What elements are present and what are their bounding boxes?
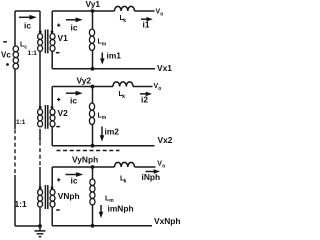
wire left branch bottom solid [14, 175, 16, 226]
wire Vx1 rail [52, 68, 155, 70]
svg-text:Vc: Vc [1, 51, 11, 60]
svg-text:k: k [124, 178, 127, 184]
wire primary chain T1 to T2 [39, 51, 41, 109]
svg-text:VNph: VNph [58, 191, 80, 201]
label Vc [1, 51, 11, 60]
label Lc [20, 42, 27, 51]
svg-text:iNph: iNph [142, 172, 161, 182]
svg-text:imNph: imNph [108, 203, 134, 213]
svg-text:im2: im2 [105, 126, 120, 136]
wire Vy1 to Lk1 [93, 10, 115, 12]
wire T2 secondary down [51, 127, 53, 146]
label i1 [143, 20, 150, 30]
wire Vx2 rail [52, 145, 154, 147]
svg-text:V1: V1 [58, 33, 69, 43]
svg-text:o: o [162, 163, 165, 169]
svg-text:Vy2: Vy2 [77, 76, 92, 86]
label ic primary [24, 21, 31, 31]
wire TN primary down [39, 207, 41, 226]
current arrow i1 [141, 17, 153, 22]
wire TN secondary up [51, 167, 53, 189]
transformer TN core [45, 185, 47, 209]
label plus Vc [6, 63, 9, 66]
wire primary chain to TN solid [39, 167, 41, 189]
transformer T2 secondary winding [50, 109, 55, 127]
label ic phase2 [70, 95, 77, 105]
wire phaseN secondary top [52, 166, 92, 168]
transformer T2 secondary dot [51, 106, 54, 109]
current arrow im1 [100, 53, 105, 65]
label im2 [105, 126, 120, 136]
label 1:1 T2 [16, 119, 26, 126]
wire primary chain dashed [39, 142, 41, 168]
svg-text:1:1: 1:1 [28, 50, 38, 57]
svg-text:Vx2: Vx2 [158, 135, 173, 145]
current arrow imNph [99, 205, 104, 218]
current arrow ic phaseN [66, 172, 84, 177]
transformer T1 secondary dot [51, 30, 54, 33]
label node Vx1 [157, 63, 172, 73]
label LkN [120, 176, 127, 185]
wire primary loop top [15, 10, 40, 12]
label minus Vc [3, 41, 7, 43]
wire VyNph to LkN [93, 166, 115, 168]
wire primary chain T2 lower solid [39, 129, 41, 141]
svg-text:Vx1: Vx1 [157, 63, 172, 73]
svg-text:i1: i1 [143, 20, 150, 30]
svg-text:1:1: 1:1 [16, 119, 26, 126]
wire Lk2 to Vo [133, 86, 153, 88]
wire Lm2 to Vx2 [92, 125, 94, 146]
label Vo phase1 [156, 9, 164, 18]
transformer T2 core [45, 105, 47, 129]
wire T1 secondary up [51, 11, 53, 34]
label VNph [58, 191, 80, 201]
node primary bottom junction [38, 224, 42, 228]
inductor Lc [13, 46, 18, 69]
label Lm1 [98, 39, 107, 48]
label node VxNph [154, 216, 181, 226]
wire LkN to Vo [135, 166, 156, 168]
label minus VNph [56, 209, 60, 211]
label ic phaseN [71, 176, 78, 186]
label imNph [108, 203, 134, 213]
current arrow ic primary [19, 15, 37, 20]
node VxNph junction [91, 224, 95, 228]
inductor LkN [115, 162, 135, 167]
wire LmN to VxNph [92, 205, 94, 226]
transformer T2 primary winding [38, 109, 43, 127]
label plus VNph [57, 178, 60, 181]
label node Vx2 [158, 135, 173, 145]
label Lk1 [120, 15, 127, 24]
inductor LmN [90, 179, 95, 205]
label Lm2 [98, 112, 107, 121]
wire VyNph down to LmN [92, 167, 94, 179]
label i2 [141, 94, 148, 104]
wire T1 secondary down [51, 51, 53, 69]
wire primary bottom return [15, 225, 40, 227]
node Vx2 junction [91, 144, 95, 148]
svg-text:VxNph: VxNph [154, 216, 181, 226]
inductor Lk2 [113, 82, 133, 87]
label node VyNph [72, 155, 98, 165]
label V1 [58, 33, 69, 43]
node Vy1 junction [91, 9, 95, 13]
svg-text:m: m [102, 41, 107, 47]
label Vo phaseN [157, 161, 165, 170]
transformer T1 primary winding [38, 34, 43, 52]
wire Lk1 to Vo [135, 10, 155, 12]
transformer T1 primary dot [39, 30, 42, 33]
transformer T1 core [45, 30, 47, 54]
ground [35, 226, 46, 237]
svg-text:1:1: 1:1 [15, 199, 27, 209]
wire Vy2 to Lk2 [93, 86, 114, 88]
wire Lm1 to Vx1 [92, 51, 94, 69]
wire left branch upper [14, 11, 16, 46]
label Lk2 [119, 91, 126, 100]
svg-text:k: k [122, 94, 125, 100]
label plus V2 [57, 98, 60, 101]
transformer TN secondary winding [50, 189, 55, 207]
wire Vy1 down to Lm1 [92, 11, 94, 29]
current arrow i2 [140, 92, 152, 97]
svg-text:Vy1: Vy1 [86, 0, 101, 9]
svg-text:V2: V2 [58, 108, 69, 118]
label minus V2 [56, 126, 60, 128]
svg-text:ic: ic [71, 176, 78, 186]
label ic phase1 [71, 22, 78, 32]
label iNph [142, 172, 161, 182]
wire left branch lower solid [14, 69, 16, 129]
wire T2 secondary up [51, 87, 53, 110]
inductor Lm2 [89, 103, 94, 124]
wire VxNph rail [52, 225, 152, 227]
label V2 [58, 108, 69, 118]
svg-text:m: m [102, 115, 107, 121]
node Vy2 junction [91, 85, 95, 89]
transformer TN primary dot [39, 186, 42, 189]
wire phase1 secondary top [52, 10, 92, 12]
current arrow im2 [100, 127, 105, 142]
label 1:1 TN [15, 199, 27, 209]
current arrow ic phase1 [66, 17, 83, 22]
node Vx1 junction [91, 67, 95, 71]
svg-text:ic: ic [24, 21, 31, 31]
wire phase2 secondary top [52, 86, 92, 88]
label minus V1 [56, 52, 60, 54]
svg-text:o: o [158, 86, 161, 92]
transformer T1 primary wire down [39, 11, 41, 34]
label node Vy1 [86, 0, 101, 9]
inductor Lm1 [89, 29, 94, 50]
current arrow ic phase2 [66, 91, 83, 96]
svg-text:im1: im1 [107, 51, 122, 61]
svg-text:ic: ic [71, 22, 78, 32]
svg-text:i2: i2 [141, 94, 148, 104]
transformer T1 secondary winding [50, 34, 55, 52]
wire TN secondary down [51, 207, 53, 226]
node VyNph junction [91, 165, 95, 169]
svg-text:ic: ic [70, 95, 77, 105]
label LmN [105, 195, 114, 204]
svg-text:VyNph: VyNph [72, 155, 98, 165]
svg-text:k: k [123, 18, 126, 24]
current arrow iNph [146, 169, 161, 174]
svg-text:o: o [160, 11, 163, 17]
label plus V1 [57, 24, 60, 27]
transformer T2 primary dot [39, 106, 42, 109]
wire Vy2 down to Lm2 [92, 87, 94, 104]
transformer TN primary winding [38, 189, 43, 207]
label im1 [107, 51, 122, 61]
inductor Lk1 [115, 6, 135, 11]
label Vo phase2 [154, 83, 162, 92]
wire left branch dashed [14, 130, 16, 176]
label 1:1 T1 [28, 50, 38, 57]
separator dashed line [57, 150, 120, 152]
label node Vy2 [77, 76, 92, 86]
transformer TN secondary dot [51, 186, 54, 189]
